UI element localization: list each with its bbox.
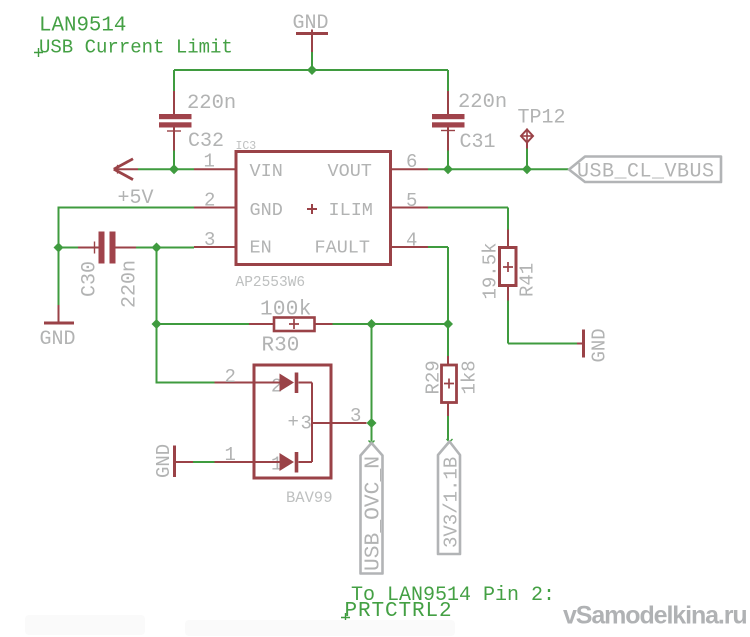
svg-text:3: 3 <box>204 229 215 251</box>
svg-text:VIN: VIN <box>250 161 283 182</box>
svg-text:3V3/1.1B: 3V3/1.1B <box>441 457 463 548</box>
svg-text:5: 5 <box>406 190 417 212</box>
svg-text:R41: R41 <box>517 263 539 297</box>
svg-text:19.5k: 19.5k <box>480 242 502 299</box>
svg-text:LAN9514: LAN9514 <box>39 15 126 38</box>
svg-text:FAULT: FAULT <box>315 238 371 259</box>
svg-text:+5V: +5V <box>118 187 154 210</box>
svg-text:R29: R29 <box>423 360 445 394</box>
svg-text:2: 2 <box>204 190 215 212</box>
svg-text:GND: GND <box>589 328 611 362</box>
svg-text:C30: C30 <box>79 261 102 297</box>
svg-text:AP2553W6: AP2553W6 <box>236 275 306 291</box>
svg-text:3: 3 <box>301 413 312 435</box>
svg-text:6: 6 <box>406 151 417 173</box>
svg-text:BAV99: BAV99 <box>286 489 333 507</box>
svg-text:C31: C31 <box>460 131 496 154</box>
svg-text:1k8: 1k8 <box>459 360 481 394</box>
svg-text:IC3: IC3 <box>236 140 257 153</box>
svg-text:USB_CL_VBUS: USB_CL_VBUS <box>577 161 715 184</box>
svg-text:PRTCTRL2: PRTCTRL2 <box>345 600 453 623</box>
svg-text:ILIM: ILIM <box>329 200 373 221</box>
svg-text:USB_OVC_N: USB_OVC_N <box>362 456 386 571</box>
svg-text:1: 1 <box>225 444 236 466</box>
svg-text:GND: GND <box>250 200 283 221</box>
svg-text:1: 1 <box>204 151 215 173</box>
svg-text:GND: GND <box>40 328 76 351</box>
svg-text:VOUT: VOUT <box>328 161 372 182</box>
svg-text:vSamodelkina.ru: vSamodelkina.ru <box>563 602 747 630</box>
svg-text:220n: 220n <box>119 260 142 308</box>
svg-text:GND: GND <box>153 444 175 478</box>
svg-text:3: 3 <box>350 405 361 427</box>
svg-text:100k: 100k <box>260 299 312 322</box>
svg-text:USB Current Limit: USB Current Limit <box>39 37 233 59</box>
svg-text:220n: 220n <box>458 91 507 114</box>
svg-text:2: 2 <box>225 366 236 388</box>
svg-text:EN: EN <box>250 238 272 259</box>
svg-text:+: + <box>288 411 299 433</box>
svg-text:220n: 220n <box>187 92 236 115</box>
svg-text:GND: GND <box>293 12 329 35</box>
svg-text:R30: R30 <box>262 335 300 358</box>
svg-text:TP12: TP12 <box>518 107 566 130</box>
svg-text:4: 4 <box>406 230 417 252</box>
